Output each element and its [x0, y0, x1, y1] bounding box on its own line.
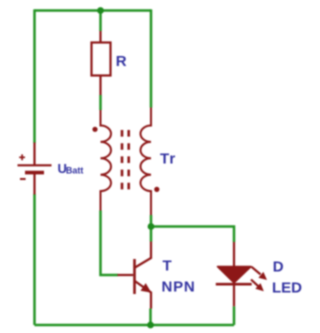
wire emitter to bottom — [149, 309, 152, 326]
transistor T emitter arrowhead — [141, 283, 152, 293]
svg-text:LED: LED — [272, 280, 302, 297]
LED light arrow 1 — [252, 267, 268, 280]
transformer core dashed lines — [122, 130, 129, 191]
battery plus sign — [19, 154, 25, 160]
svg-text:R: R — [116, 53, 127, 70]
wire secondary coil to collector — [150, 215, 153, 242]
transformer secondary polarity dot — [154, 187, 159, 192]
transformer primary polarity dot — [92, 127, 97, 132]
wire top horizontal — [35, 9, 152, 12]
svg-text:D: D — [273, 259, 284, 276]
wire LED bottom — [233, 306, 236, 325]
transistor T base lead — [118, 274, 134, 276]
svg-text:Batt: Batt — [66, 165, 84, 175]
svg-text:Tr: Tr — [160, 151, 176, 168]
transistor T collector lead — [135, 242, 151, 268]
junction node emitter/bottom — [147, 322, 154, 329]
wire right branch top — [150, 9, 153, 107]
wire left vertical lower — [33, 194, 36, 325]
wire resistor top — [99, 11, 102, 32]
label R — [116, 53, 127, 70]
wire junction to LED horizontal — [151, 227, 234, 243]
LED D triangle — [218, 267, 252, 283]
label T NPN — [162, 258, 196, 296]
junction node collector/LED — [148, 223, 155, 230]
wire primary coil to base — [101, 211, 119, 276]
LED light arrow 2 — [251, 280, 264, 292]
battery U_Batt — [18, 143, 52, 195]
LED D anode lead — [233, 242, 235, 267]
transformer Tr secondary winding — [141, 108, 152, 216]
LED D cathode bar — [216, 283, 252, 286]
transformer Tr primary winding — [101, 110, 112, 211]
label D LED — [272, 259, 302, 297]
wire left vertical upper — [33, 9, 36, 143]
transistor T base bar — [133, 259, 136, 294]
wire resistor to primary coil — [99, 95, 102, 110]
svg-text:NPN: NPN — [162, 279, 196, 296]
label Tr — [160, 151, 176, 168]
label U_Batt — [58, 161, 84, 176]
LED D cathode lead — [233, 284, 235, 306]
transistor T emitter lead with arrow — [135, 281, 151, 309]
battery minus sign — [20, 178, 26, 180]
resistor R1 body — [92, 31, 111, 95]
svg-text:T: T — [163, 258, 172, 275]
junction node top — [97, 7, 104, 14]
wire bottom horizontal — [35, 324, 235, 327]
